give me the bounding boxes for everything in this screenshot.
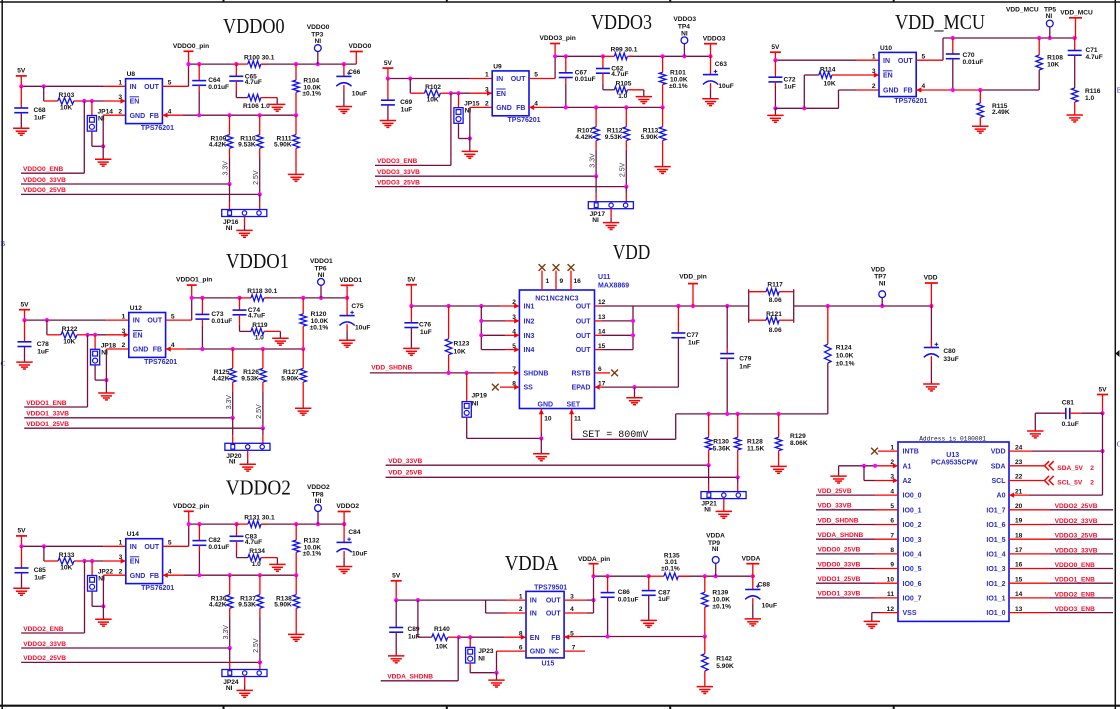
junction 5V/C89 xyxy=(394,598,398,602)
junction FB/C70 xyxy=(951,88,955,92)
resistor R126 9.53K xyxy=(241,349,266,391)
regulator IC U10 TPS76201 xyxy=(872,45,928,105)
svg-text:1uF: 1uF xyxy=(34,575,46,582)
svg-text:IO1_6: IO1_6 xyxy=(986,522,1005,529)
svg-text:C66: C66 xyxy=(348,69,360,76)
svg-text:OUT: OUT xyxy=(546,611,562,618)
wire VDD rail right xyxy=(794,305,932,307)
svg-text:VDD_33VB: VDD_33VB xyxy=(818,503,852,510)
svg-text:2.5V: 2.5V xyxy=(620,162,627,177)
svg-text:R118 30.1: R118 30.1 xyxy=(247,288,277,295)
ground under C89 xyxy=(388,655,404,657)
wire output rail right xyxy=(629,55,711,57)
svg-text:TPS76201: TPS76201 xyxy=(141,125,174,132)
pin 2 A1 arrow xyxy=(893,463,898,468)
svg-text:1uF: 1uF xyxy=(401,107,413,114)
svg-text:R133: R133 xyxy=(59,552,75,559)
net label VDDO1_25VB (U13 pin 10) xyxy=(816,576,898,583)
svg-text:VDDA: VDDA xyxy=(505,551,559,575)
ground under C75 xyxy=(339,339,355,341)
svg-text:IO1_2: IO1_2 xyxy=(986,581,1005,588)
capacitor C84 10uF xyxy=(337,524,368,566)
svg-text:FB: FB xyxy=(903,88,912,95)
net label VDDO2_33VB (U13 pin 19) xyxy=(1009,518,1113,525)
svg-text:IO0_3: IO0_3 xyxy=(903,537,922,544)
capacitor C70 0.01uF xyxy=(946,38,984,90)
svg-text:R140: R140 xyxy=(434,626,450,633)
svg-text:EN: EN xyxy=(133,332,143,339)
pin 2 IN1 arrow xyxy=(514,303,519,308)
power 5V (VDDO1) xyxy=(19,302,30,321)
svg-text:8.06: 8.06 xyxy=(769,327,782,334)
pin 3 EN arrow xyxy=(121,558,126,563)
net label VDD_25VB xyxy=(386,470,738,478)
wire OUT1 stub xyxy=(595,305,603,307)
junction testpoint xyxy=(316,522,320,526)
net label VDDA_SHDNB (U13 pin 7) xyxy=(816,532,898,539)
svg-text:10: 10 xyxy=(887,576,895,583)
wire IN1 stub xyxy=(500,305,519,307)
junction pin stub xyxy=(186,62,190,66)
junction FB/R115 xyxy=(978,88,982,92)
svg-text:12: 12 xyxy=(887,606,895,613)
resistor R99 30.1 xyxy=(603,47,638,60)
wire GND pin 2 xyxy=(102,575,104,606)
jumper JP20 NI xyxy=(225,418,270,466)
junction OUT2 xyxy=(631,319,635,323)
svg-text:VDDO0_25VB: VDDO0_25VB xyxy=(818,547,861,554)
ground at JP17 xyxy=(603,209,619,230)
wire GND pin stub xyxy=(103,574,125,576)
net label VDDO3_33VB xyxy=(375,169,596,176)
svg-text:FB: FB xyxy=(150,113,159,120)
resistor R138 5.90K xyxy=(274,575,299,634)
no-connect pin RSTB (U11) xyxy=(595,370,619,377)
capacitor C86 0.01uF xyxy=(601,576,639,636)
junction FB/R112 xyxy=(624,105,628,109)
capacitor C83 4.7uF xyxy=(230,524,263,546)
svg-text:SET = 800mV: SET = 800mV xyxy=(582,430,648,441)
svg-text:R124: R124 xyxy=(836,345,852,352)
svg-text:4.7uF: 4.7uF xyxy=(248,313,265,320)
svg-text:NI: NI xyxy=(879,281,886,288)
regulator IC U14 TPS76201 xyxy=(119,531,175,592)
svg-text:NI: NI xyxy=(472,400,479,407)
net label VDDO2_25VB xyxy=(21,655,260,662)
svg-text:R100 30.1: R100 30.1 xyxy=(244,54,275,61)
wire output rail xyxy=(189,523,239,525)
capacitor C68 xyxy=(14,86,46,128)
svg-text:4: 4 xyxy=(570,606,574,613)
testpoint TP6 NI xyxy=(310,258,333,298)
svg-text:VDD: VDD xyxy=(613,240,651,264)
wire IN2 branch xyxy=(486,600,506,613)
wire VDDA rail xyxy=(594,575,649,577)
svg-text:IO0_0: IO0_0 xyxy=(903,493,922,500)
wire OUT bus xyxy=(602,306,633,350)
wire FB net xyxy=(183,574,296,576)
svg-text:GND: GND xyxy=(133,347,149,354)
junction C65 xyxy=(234,62,238,66)
net label VDDA_SHDNB xyxy=(381,637,459,681)
svg-text:IO1_0: IO1_0 xyxy=(986,610,1005,617)
svg-text:4.42K: 4.42K xyxy=(212,376,230,383)
svg-text:9: 9 xyxy=(560,278,564,285)
svg-text:R129: R129 xyxy=(790,433,806,440)
wire output riser xyxy=(191,298,193,320)
svg-text:R103: R103 xyxy=(59,92,75,99)
net label VDD_SHDNB (U13 pin 6) xyxy=(816,517,898,524)
svg-text:C86: C86 xyxy=(618,589,630,596)
svg-text:IO0_1: IO0_1 xyxy=(903,507,922,514)
resistor R117 8.06 xyxy=(749,282,794,323)
wire EN net to box xyxy=(470,92,492,94)
svg-text:C79: C79 xyxy=(739,356,751,363)
svg-text:4: 4 xyxy=(168,568,172,575)
svg-text:IN: IN xyxy=(130,84,137,91)
svg-text:3: 3 xyxy=(122,328,126,335)
svg-text:IN4: IN4 xyxy=(524,347,535,354)
wire jumper to ground node xyxy=(459,123,470,138)
svg-text:11.5K: 11.5K xyxy=(747,446,764,453)
wire output rail xyxy=(192,297,242,299)
wire FB pin stub xyxy=(166,348,187,350)
capacitor C80 33uF xyxy=(924,306,959,384)
svg-text:RSTB: RSTB xyxy=(571,371,590,378)
wire IN2/3/4 bus xyxy=(481,306,505,350)
junction IN2 xyxy=(479,319,483,323)
svg-text:MAX8869: MAX8869 xyxy=(598,283,629,290)
ground under R142 xyxy=(697,686,713,688)
pin 4 FB arrow (U10) xyxy=(916,87,921,92)
svg-text:7: 7 xyxy=(572,644,576,651)
svg-text:3.3V: 3.3V xyxy=(226,395,233,410)
resistor R119 1.0 xyxy=(240,315,281,342)
ground under R127 xyxy=(295,407,311,409)
resistor R105 1.0 xyxy=(603,73,644,100)
svg-text:IO1_7: IO1_7 xyxy=(986,507,1005,514)
ground under C88 xyxy=(745,618,761,620)
svg-text:4.7uF: 4.7uF xyxy=(1086,54,1103,61)
ground at U15 GND xyxy=(488,673,504,687)
svg-text:0.01uF: 0.01uF xyxy=(208,544,229,551)
junction OUT3 xyxy=(631,333,635,337)
junction C74 xyxy=(237,296,241,300)
svg-text:1.0: 1.0 xyxy=(252,561,261,568)
pin 3 EN arrow xyxy=(124,332,129,337)
net label VDDO3_ENB xyxy=(375,93,451,165)
svg-text:10K: 10K xyxy=(60,565,72,572)
svg-text:VDDO2_ENB: VDDO2_ENB xyxy=(23,626,64,633)
svg-text:VDDO2_ENB: VDDO2_ENB xyxy=(1055,591,1096,598)
ground at JP22 xyxy=(95,606,111,626)
svg-text:VDDO2: VDDO2 xyxy=(336,503,359,510)
wire FB net xyxy=(550,106,663,108)
junction C70 xyxy=(951,36,955,40)
svg-text:VDDO2_25VB: VDDO2_25VB xyxy=(23,655,66,662)
svg-text:2.5V: 2.5V xyxy=(256,404,263,419)
junction C64 xyxy=(197,62,201,66)
wire GND pin 10 xyxy=(540,409,542,433)
junction R139 xyxy=(703,574,707,578)
ground at A1/A2 xyxy=(830,466,846,483)
capacitor C74 4.7uF xyxy=(233,298,266,320)
svg-text:1.0: 1.0 xyxy=(255,335,264,342)
svg-text:5V: 5V xyxy=(407,277,416,284)
wire 5V input rail to U9 IN xyxy=(388,78,470,80)
wire output riser U10 xyxy=(943,38,1076,60)
svg-text:±0.1%: ±0.1% xyxy=(302,91,321,98)
svg-text:4.7uF: 4.7uF xyxy=(611,71,628,78)
net label VDDO1_33VB (U13 pin 11) xyxy=(816,591,898,598)
net label VDD_33VB (U13 pin 5) xyxy=(816,503,898,510)
ground under R115 xyxy=(972,125,988,127)
wire OUT pin 5 to output rail xyxy=(162,85,188,87)
wire OUT2 stub xyxy=(595,320,603,322)
pin 21 A0 arrow xyxy=(1009,493,1014,498)
pin 4 FB arrow xyxy=(163,573,168,578)
capacitor C78 xyxy=(18,320,50,362)
junction FB/R137 xyxy=(258,573,262,577)
svg-text:C72: C72 xyxy=(784,77,796,84)
net label VDD_SHDNB xyxy=(370,365,495,373)
svg-text:1: 1 xyxy=(519,593,523,600)
wire EN net to pin 3 xyxy=(77,334,88,336)
junction SHDNB/JP19 xyxy=(465,371,469,375)
power 5V (VDD) xyxy=(406,277,417,307)
testpoint TP3 NI xyxy=(307,24,330,64)
power 5V (VDD_MCU) xyxy=(770,44,781,60)
power symbol VDD_pin xyxy=(679,274,706,307)
junction 25VB xyxy=(261,426,265,430)
junction FB/R109 xyxy=(227,113,231,117)
junction C66 xyxy=(342,62,346,66)
resistor R123 10K xyxy=(445,306,469,373)
svg-text:IN: IN xyxy=(133,318,140,325)
svg-text:R104: R104 xyxy=(303,77,319,84)
svg-text:IN2: IN2 xyxy=(524,319,535,326)
junction GND net xyxy=(468,136,472,140)
resistor R107 4.42K xyxy=(575,107,599,149)
svg-text:U11: U11 xyxy=(598,274,611,281)
junction EN/VDDA_SHDNB xyxy=(457,635,461,639)
capacitor C79 1nF xyxy=(720,306,752,414)
svg-text:2: 2 xyxy=(118,108,122,115)
wire R128 to JP21 xyxy=(737,477,739,484)
junction FB/R110 xyxy=(258,113,262,117)
ground at JP14 xyxy=(95,146,111,166)
ground at JP24 xyxy=(237,677,253,698)
svg-text:4: 4 xyxy=(534,101,538,108)
svg-text:C84: C84 xyxy=(348,529,360,536)
junction C79 xyxy=(725,304,729,308)
wire A1 stub xyxy=(875,465,898,467)
net label VDDO3_25VB (U13 pin 18) xyxy=(1009,533,1113,540)
junction A1 stub xyxy=(873,464,877,468)
svg-text:12: 12 xyxy=(598,299,606,306)
junction R103 tap xyxy=(42,84,46,88)
wire 5V rail to U15 xyxy=(396,599,506,601)
junction C80 xyxy=(929,304,933,308)
jumper JP24 NI xyxy=(222,648,267,692)
junction R133 tap xyxy=(42,544,46,548)
wire GND pin 6 stub xyxy=(497,650,527,652)
svg-text:JP22: JP22 xyxy=(98,569,114,576)
jumper JP15 NI xyxy=(454,93,480,123)
svg-text:16: 16 xyxy=(1015,562,1023,569)
power symbol VDDO2_pin xyxy=(173,503,209,524)
svg-text:10uF: 10uF xyxy=(352,551,367,558)
junction R128 xyxy=(736,412,740,416)
ground at JP20 xyxy=(240,450,256,471)
svg-text:SS: SS xyxy=(524,385,534,392)
junction FB/C86 xyxy=(606,634,610,638)
wire FB pin 4 stub xyxy=(916,89,980,91)
jumper JP14 NI xyxy=(87,101,113,131)
svg-text:0.01uF: 0.01uF xyxy=(208,84,229,91)
svg-text:VDDO0_33VB: VDDO0_33VB xyxy=(23,177,66,184)
svg-text:R128: R128 xyxy=(747,438,763,445)
wire FB net xyxy=(186,348,303,350)
wire SET divider rail xyxy=(676,413,828,415)
wire FB pin 5 stub xyxy=(564,636,580,638)
svg-text:TPS79501: TPS79501 xyxy=(534,584,567,591)
wire R137 to 25VB xyxy=(259,618,261,663)
svg-text:5: 5 xyxy=(168,80,172,87)
junction pin stub xyxy=(190,296,194,300)
junction GND net xyxy=(101,144,105,148)
svg-text:15: 15 xyxy=(598,343,606,350)
junction testpoint xyxy=(319,296,323,300)
wire VSS pin 12 xyxy=(872,613,880,621)
junction C86 xyxy=(606,574,610,578)
pin 5 FB arrow xyxy=(564,634,569,639)
capacitor C67 0.01uF xyxy=(559,56,596,107)
junction FB/R125 xyxy=(231,347,235,351)
junction FB/R104 xyxy=(294,113,298,117)
wire OUT pin 5 to output rail xyxy=(163,545,189,547)
junction GND net xyxy=(101,604,105,608)
svg-text:VDD_MCU: VDD_MCU xyxy=(1006,7,1039,14)
wire EN net to pin 3 xyxy=(74,100,85,102)
pin 3 EN arrow xyxy=(120,98,125,103)
svg-text:NI: NI xyxy=(478,656,485,663)
svg-text:IN: IN xyxy=(530,611,537,618)
svg-text:JP23: JP23 xyxy=(478,648,494,655)
wire FB pin stub xyxy=(529,106,550,108)
svg-text:VDDO1_33VB: VDDO1_33VB xyxy=(26,411,69,418)
wire output rail xyxy=(189,63,239,65)
wire GND pin 2 stub xyxy=(856,89,879,91)
svg-text:4: 4 xyxy=(922,83,926,90)
junction C83 xyxy=(234,522,238,526)
svg-text:NI: NI xyxy=(592,217,599,224)
svg-text:3: 3 xyxy=(872,68,876,75)
svg-text:R120: R120 xyxy=(311,311,327,318)
svg-text:VDDO3_33VB: VDDO3_33VB xyxy=(1055,547,1098,554)
net label VDDO3_33VB (U13 pin 17) xyxy=(1009,547,1113,554)
svg-text:2: 2 xyxy=(122,342,126,349)
svg-text:VDDO0_33VB: VDDO0_33VB xyxy=(818,561,861,568)
junction R140 tap xyxy=(416,598,420,602)
junction VDDA_pin xyxy=(591,574,595,578)
svg-text:NC: NC xyxy=(549,649,559,656)
svg-text:R142: R142 xyxy=(716,656,732,663)
svg-text:1: 1 xyxy=(546,278,550,285)
wire EN net to box xyxy=(104,560,126,562)
junction pin stub xyxy=(553,54,557,58)
pin 10 GND arrow xyxy=(539,409,544,414)
wire EPAD net xyxy=(602,386,678,388)
wire A2 net xyxy=(864,466,875,481)
svg-text:C85: C85 xyxy=(34,567,46,574)
svg-text:R130: R130 xyxy=(713,438,729,445)
svg-text:4.42K: 4.42K xyxy=(209,142,227,149)
svg-text:R114: R114 xyxy=(820,66,836,73)
wire output rail right xyxy=(262,63,356,65)
svg-text:VDDO1_25VB: VDDO1_25VB xyxy=(818,576,861,583)
wire GND pin stub xyxy=(106,348,128,350)
svg-text:VDDO2: VDDO2 xyxy=(307,484,330,491)
svg-text:NC3: NC3 xyxy=(565,296,579,303)
net label VDDO3_25VB xyxy=(375,179,626,186)
capacitor C69 xyxy=(381,79,413,121)
svg-text:2: 2 xyxy=(119,568,123,575)
svg-text:10uF: 10uF xyxy=(718,83,733,90)
resistor R112 9.53K xyxy=(605,107,630,149)
svg-text:3.3V: 3.3V xyxy=(223,625,230,640)
resistor R137 9.53K xyxy=(238,575,263,617)
ground at EPAD xyxy=(626,387,642,405)
wire EN net xyxy=(448,636,459,638)
junction FB/R126 xyxy=(261,347,265,351)
svg-text:EN: EN xyxy=(496,91,506,98)
ground at U11 GND xyxy=(533,438,549,460)
junction OUT1/riser xyxy=(591,598,595,602)
svg-text:U10: U10 xyxy=(880,45,892,52)
svg-text:18: 18 xyxy=(1015,532,1023,539)
ground under C85 xyxy=(13,587,29,589)
svg-text:A0: A0 xyxy=(997,493,1006,500)
svg-text:FB: FB xyxy=(516,105,525,112)
svg-text:VDD_SHDNB: VDD_SHDNB xyxy=(818,517,859,524)
resistor R116 1.0 xyxy=(1071,88,1100,115)
svg-text:IO0_4: IO0_4 xyxy=(903,552,922,559)
svg-text:NI: NI xyxy=(229,459,236,466)
svg-text:JP19: JP19 xyxy=(472,393,488,400)
net label VDDO2_25VB (U13 pin 20) xyxy=(1009,503,1113,510)
svg-text:VDDO1: VDDO1 xyxy=(310,258,333,265)
svg-text:VDDO2_25VB: VDDO2_25VB xyxy=(1055,503,1098,510)
svg-text:10K: 10K xyxy=(1047,62,1059,69)
junction R101 xyxy=(661,54,665,58)
svg-text:R123: R123 xyxy=(454,341,470,348)
wire GND pin 10 lower xyxy=(540,433,542,439)
resistor R127 5.90K xyxy=(281,349,306,408)
power symbol VDDO1_pin xyxy=(176,277,212,298)
svg-text:R99 30.1: R99 30.1 xyxy=(611,47,638,54)
svg-text:24: 24 xyxy=(1015,444,1023,451)
junction GND/JP19 xyxy=(539,436,543,440)
svg-text:6: 6 xyxy=(519,644,523,651)
svg-text:1: 1 xyxy=(485,72,489,79)
junction VDD/A0 xyxy=(1100,449,1104,453)
svg-text:OUT: OUT xyxy=(144,84,160,91)
IC U15 TPS79501 xyxy=(519,584,576,667)
wire R107 to 33VB xyxy=(595,150,597,177)
junction C87 xyxy=(647,574,651,578)
wire 5V input rail to U14 IN xyxy=(22,545,104,547)
